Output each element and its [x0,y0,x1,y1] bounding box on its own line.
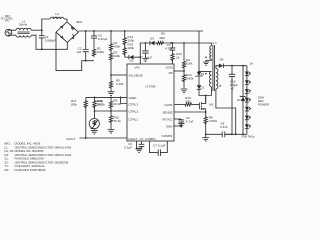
svg-text:DCM: DCM [166,66,173,70]
svg-text:499k: 499k [114,45,121,49]
svg-text:D2: D2 [130,59,134,63]
svg-text:M1:: M1: [5,168,10,172]
svg-text:VREF: VREF [129,96,137,100]
all text labels [1,12,270,150]
node VIN_SENSE [110,74,112,76]
svg-text:CTRL1: CTRL1 [129,118,139,122]
ground R5 [108,92,115,96]
svg-text:FB: FB [169,71,173,75]
svg-text:GND: GND [166,125,174,129]
svg-text:POWER: POWER [258,103,270,107]
svg-text:4.7µF: 4.7µF [165,47,173,51]
resistor R13 100k startup [123,31,126,46]
resistor R17 100k [84,97,87,138]
wire GATE [174,103,185,105]
ground primary [202,134,209,141]
chip LT3799 [127,64,174,141]
wire output return [236,133,247,135]
transformer T1 bias winding [206,43,211,62]
svg-text:SENSE: SENSE [162,111,172,115]
wire FAULT [80,137,128,139]
capacitor C1 [39,30,45,49]
svg-text:100µH: 100µH [53,15,62,19]
svg-text:0.22µF: 0.22µF [98,37,108,41]
svg-text:4.7µF: 4.7µF [186,119,194,123]
svg-text:CTRL3: CTRL3 [129,103,139,107]
wire CTRL2 [95,110,128,112]
capacitor C8 Y-cap in return [206,131,236,137]
resistor R14 4.99k FB divider bottom [182,68,185,89]
resistor R8 sense 0.80 ohm [204,116,207,136]
svg-text:1A: 1A [249,62,253,66]
inductor L1 common-mode choke 30mH [16,28,31,37]
resistor R16 gate [185,103,200,106]
wire up to top rail [42,19,50,30]
svg-text:5.49k: 5.49k [116,82,124,86]
transformer T1 secondary winding [216,66,219,89]
svg-text:15.4k: 15.4k [114,119,122,123]
zener Z1 clamp [196,72,203,85]
wire SENSE [174,111,206,113]
ground NTC [91,130,98,134]
capacitor C9 4.7uF [179,119,185,127]
capacitor C2 [83,31,89,62]
zener Z2 [240,66,246,135]
svg-text:3.3nF: 3.3nF [220,125,228,129]
svg-text:100k: 100k [128,46,135,50]
MOSFET M1 [199,96,205,115]
resistor R12 2k [171,53,174,65]
wire secondary bottom return [216,89,236,134]
wire HV bus [78,30,203,32]
svg-text:D1: D1 [201,86,205,90]
wire VIN_SENSE to chip [111,74,127,76]
resistor R11 20k [93,97,96,112]
resistor R10 15.4k [109,115,112,130]
LED string [245,66,251,135]
svg-text:0.80Ω: 0.80Ω [209,119,218,123]
svg-text:GATE: GATE [165,103,173,107]
svg-text:Z2: Z2 [237,98,241,102]
svg-text:20Ω: 20Ω [185,99,191,103]
parts list [5,142,72,172]
svg-text:COMP1: COMP1 [145,137,156,141]
svg-text:499k: 499k [114,54,121,58]
svg-text:LT3799: LT3799 [146,85,156,89]
resistor R3 499k [109,51,112,76]
capacitor C4 4.7uF [170,43,176,53]
wire line2 choke to AC return [31,35,67,49]
svg-text:VIN: VIN [134,66,139,70]
inductor L2 100uH [50,17,64,19]
wire primary bottom to drain node [206,87,212,104]
resistor R5 5.49k [109,75,112,92]
resistor R6 [156,41,164,44]
transformer T1 primary winding [210,72,212,87]
diode D4 output [219,64,247,68]
resistor R15 100k startup [123,45,126,58]
diode D3 [150,41,155,45]
capacitor C3 [91,31,97,48]
wire VREF rail [86,96,127,98]
transformer T1 phase dots [205,57,207,59]
capacitor C5 10uF [142,43,149,62]
resistor R1 [92,48,95,57]
svg-text:COMP2: COMP2 [162,134,173,138]
wire DC minus: bridge left corner down to ground rail [56,32,94,71]
resistor R2 499k [109,31,112,52]
ground R10 [108,130,115,134]
svg-text:10µF: 10µF [145,56,152,60]
wire VIN riser and bias bus [140,43,211,64]
svg-text:3799 TA01a: 3799 TA01a [241,136,255,139]
resistor R4 100k FB divider top [182,43,185,69]
svg-text:CTRL2: CTRL2 [129,110,139,114]
thermistor NTC 100k [89,111,99,130]
svg-text:100k: 100k [70,103,77,107]
svg-text:30Ω: 30Ω [159,36,165,40]
diode D2 [125,55,142,59]
svg-text:VIN_SENSE: VIN_SENSE [129,75,143,78]
svg-text:4.99k: 4.99k [186,77,194,81]
diode D1 clamp [197,85,206,95]
svg-text:100k: 100k [128,38,135,42]
wire FB [174,70,184,72]
ground C6 [136,149,143,153]
svg-text:+: + [141,55,143,59]
chip pin labels [129,66,174,142]
svg-text:2k: 2k [176,56,180,60]
svg-text:D4: D4 [220,58,224,62]
svg-text:Z1: Z1 [201,72,205,76]
svg-text:D3: D3 [150,37,154,41]
svg-text:0.1µF: 0.1µF [124,146,132,150]
wire L2 to bridge top [64,19,67,22]
node C1 top [41,29,43,31]
capacitor C10 output 100uF x2 [229,66,235,135]
wire line1 choke to C1 node [31,29,42,31]
svg-text:BR1: BR1 [77,20,83,24]
wire INTVCC [174,118,181,120]
svg-text:1µF: 1µF [76,50,81,54]
svg-text:40.2k: 40.2k [114,102,122,106]
wire GND pin [174,125,181,127]
AC source V1 90V-270V [5,29,16,36]
svg-text:R6: R6 [161,32,165,36]
svg-text:INTVCC: INTVCC [162,118,172,122]
svg-text:M1: M1 [209,103,213,107]
svg-text:4:1:1: 4:1:1 [210,41,217,45]
svg-text:FAULT: FAULT [66,137,75,141]
resistor R9 40.2k [109,97,112,114]
svg-text:0.068µF: 0.068µF [45,39,56,43]
wire HV bus drop to primary top [199,31,211,72]
wire CTRL3 jog [121,97,127,103]
svg-text:FAIRCHILD FDPF15N65: FAIRCHILD FDPF15N65 [15,168,46,172]
transformer T1 core [213,45,215,91]
svg-text:×2: ×2 [231,87,235,91]
bridge rectifier BR1 [56,22,78,43]
svg-text:100Ω: 100Ω [97,50,105,54]
capacitor C7 between COMP1 COMP2 [150,141,168,156]
svg-text:CT: CT [140,137,144,141]
svg-text:C7 0.1µF: C7 0.1µF [153,144,166,148]
node C1 bottom [41,48,43,50]
svg-text:FAULT: FAULT [129,137,138,141]
svg-text:20.0k: 20.0k [97,103,105,107]
ground bias winding [203,62,209,65]
ground R14 [181,89,188,93]
ground C9 [178,123,184,127]
svg-text:30mH: 30mH [19,23,27,27]
svg-text:100k: 100k [186,62,193,66]
capacitor C6 under CT [137,141,145,148]
